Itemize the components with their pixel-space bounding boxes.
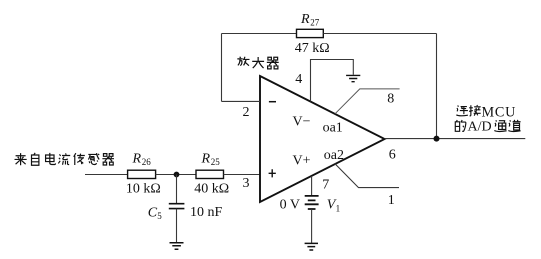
- svg-text:47 kΩ: 47 kΩ: [295, 41, 330, 56]
- svg-text:V−: V−: [293, 114, 311, 129]
- svg-text:0 V: 0 V: [280, 198, 300, 213]
- wire pin 8: [335, 89, 400, 114]
- svg-text:3: 3: [243, 176, 250, 191]
- wire pin 2: [222, 100, 261, 102]
- svg-text:40 kΩ: 40 kΩ: [194, 181, 229, 196]
- ground (pin 4): [346, 75, 360, 81]
- resistor R26: [126, 152, 161, 197]
- node junction dot: [174, 172, 180, 178]
- wire R25 to pin 3: [224, 174, 261, 176]
- svg-text:7: 7: [322, 177, 329, 192]
- resistor R27: [295, 12, 330, 56]
- svg-text:6: 6: [389, 148, 396, 163]
- plus input symbol: [269, 169, 276, 177]
- svg-text:A/D: A/D: [468, 120, 492, 135]
- resistor R25: [194, 152, 229, 197]
- wire C5 to ground: [176, 209, 178, 243]
- label 连接MCU: [456, 104, 516, 120]
- svg-text:1: 1: [336, 204, 341, 214]
- svg-text:R: R: [300, 12, 310, 27]
- wire feedback left vertical: [221, 34, 223, 102]
- wire pin 1: [335, 164, 399, 188]
- svg-text:oa1: oa1: [323, 120, 343, 135]
- label 的A/D通道: [455, 120, 520, 135]
- wire junction to C5: [176, 175, 178, 204]
- wire R26 to junction: [156, 174, 196, 176]
- svg-text:oa2: oa2: [324, 148, 344, 163]
- wire pin 7: [311, 176, 313, 195]
- svg-text:2: 2: [243, 105, 250, 120]
- wire output pin 6: [385, 138, 526, 140]
- wire battery to ground: [311, 209, 313, 243]
- svg-text:25: 25: [211, 157, 221, 167]
- wire feedback top left: [222, 33, 297, 35]
- svg-text:V+: V+: [293, 153, 311, 168]
- label 来自电流传感器 (from current sensor): [15, 153, 114, 165]
- label 放大器 (amplifier): [237, 57, 278, 69]
- battery V1: [280, 196, 341, 214]
- svg-text:10 kΩ: 10 kΩ: [126, 181, 161, 196]
- svg-text:R: R: [132, 152, 142, 167]
- minus input symbol: [269, 101, 276, 103]
- svg-text:26: 26: [142, 157, 152, 167]
- wire feedback right vertical: [436, 34, 438, 139]
- svg-text:MCU: MCU: [482, 104, 517, 120]
- svg-text:5: 5: [157, 211, 162, 221]
- svg-text:1: 1: [388, 193, 395, 208]
- capacitor C5: [148, 175, 223, 243]
- ground (C5): [170, 243, 184, 250]
- wire input: [85, 174, 128, 176]
- svg-text:10 nF: 10 nF: [190, 205, 223, 220]
- op-amp U1 triangle: [260, 76, 385, 202]
- ground (V1): [305, 243, 318, 250]
- svg-text:27: 27: [310, 18, 320, 28]
- wire feedback top right: [323, 33, 436, 35]
- wire pin 4: [311, 60, 354, 102]
- svg-text:4: 4: [295, 72, 302, 87]
- svg-text:R: R: [201, 152, 211, 167]
- svg-text:8: 8: [387, 92, 394, 107]
- node output junction: [434, 136, 440, 142]
